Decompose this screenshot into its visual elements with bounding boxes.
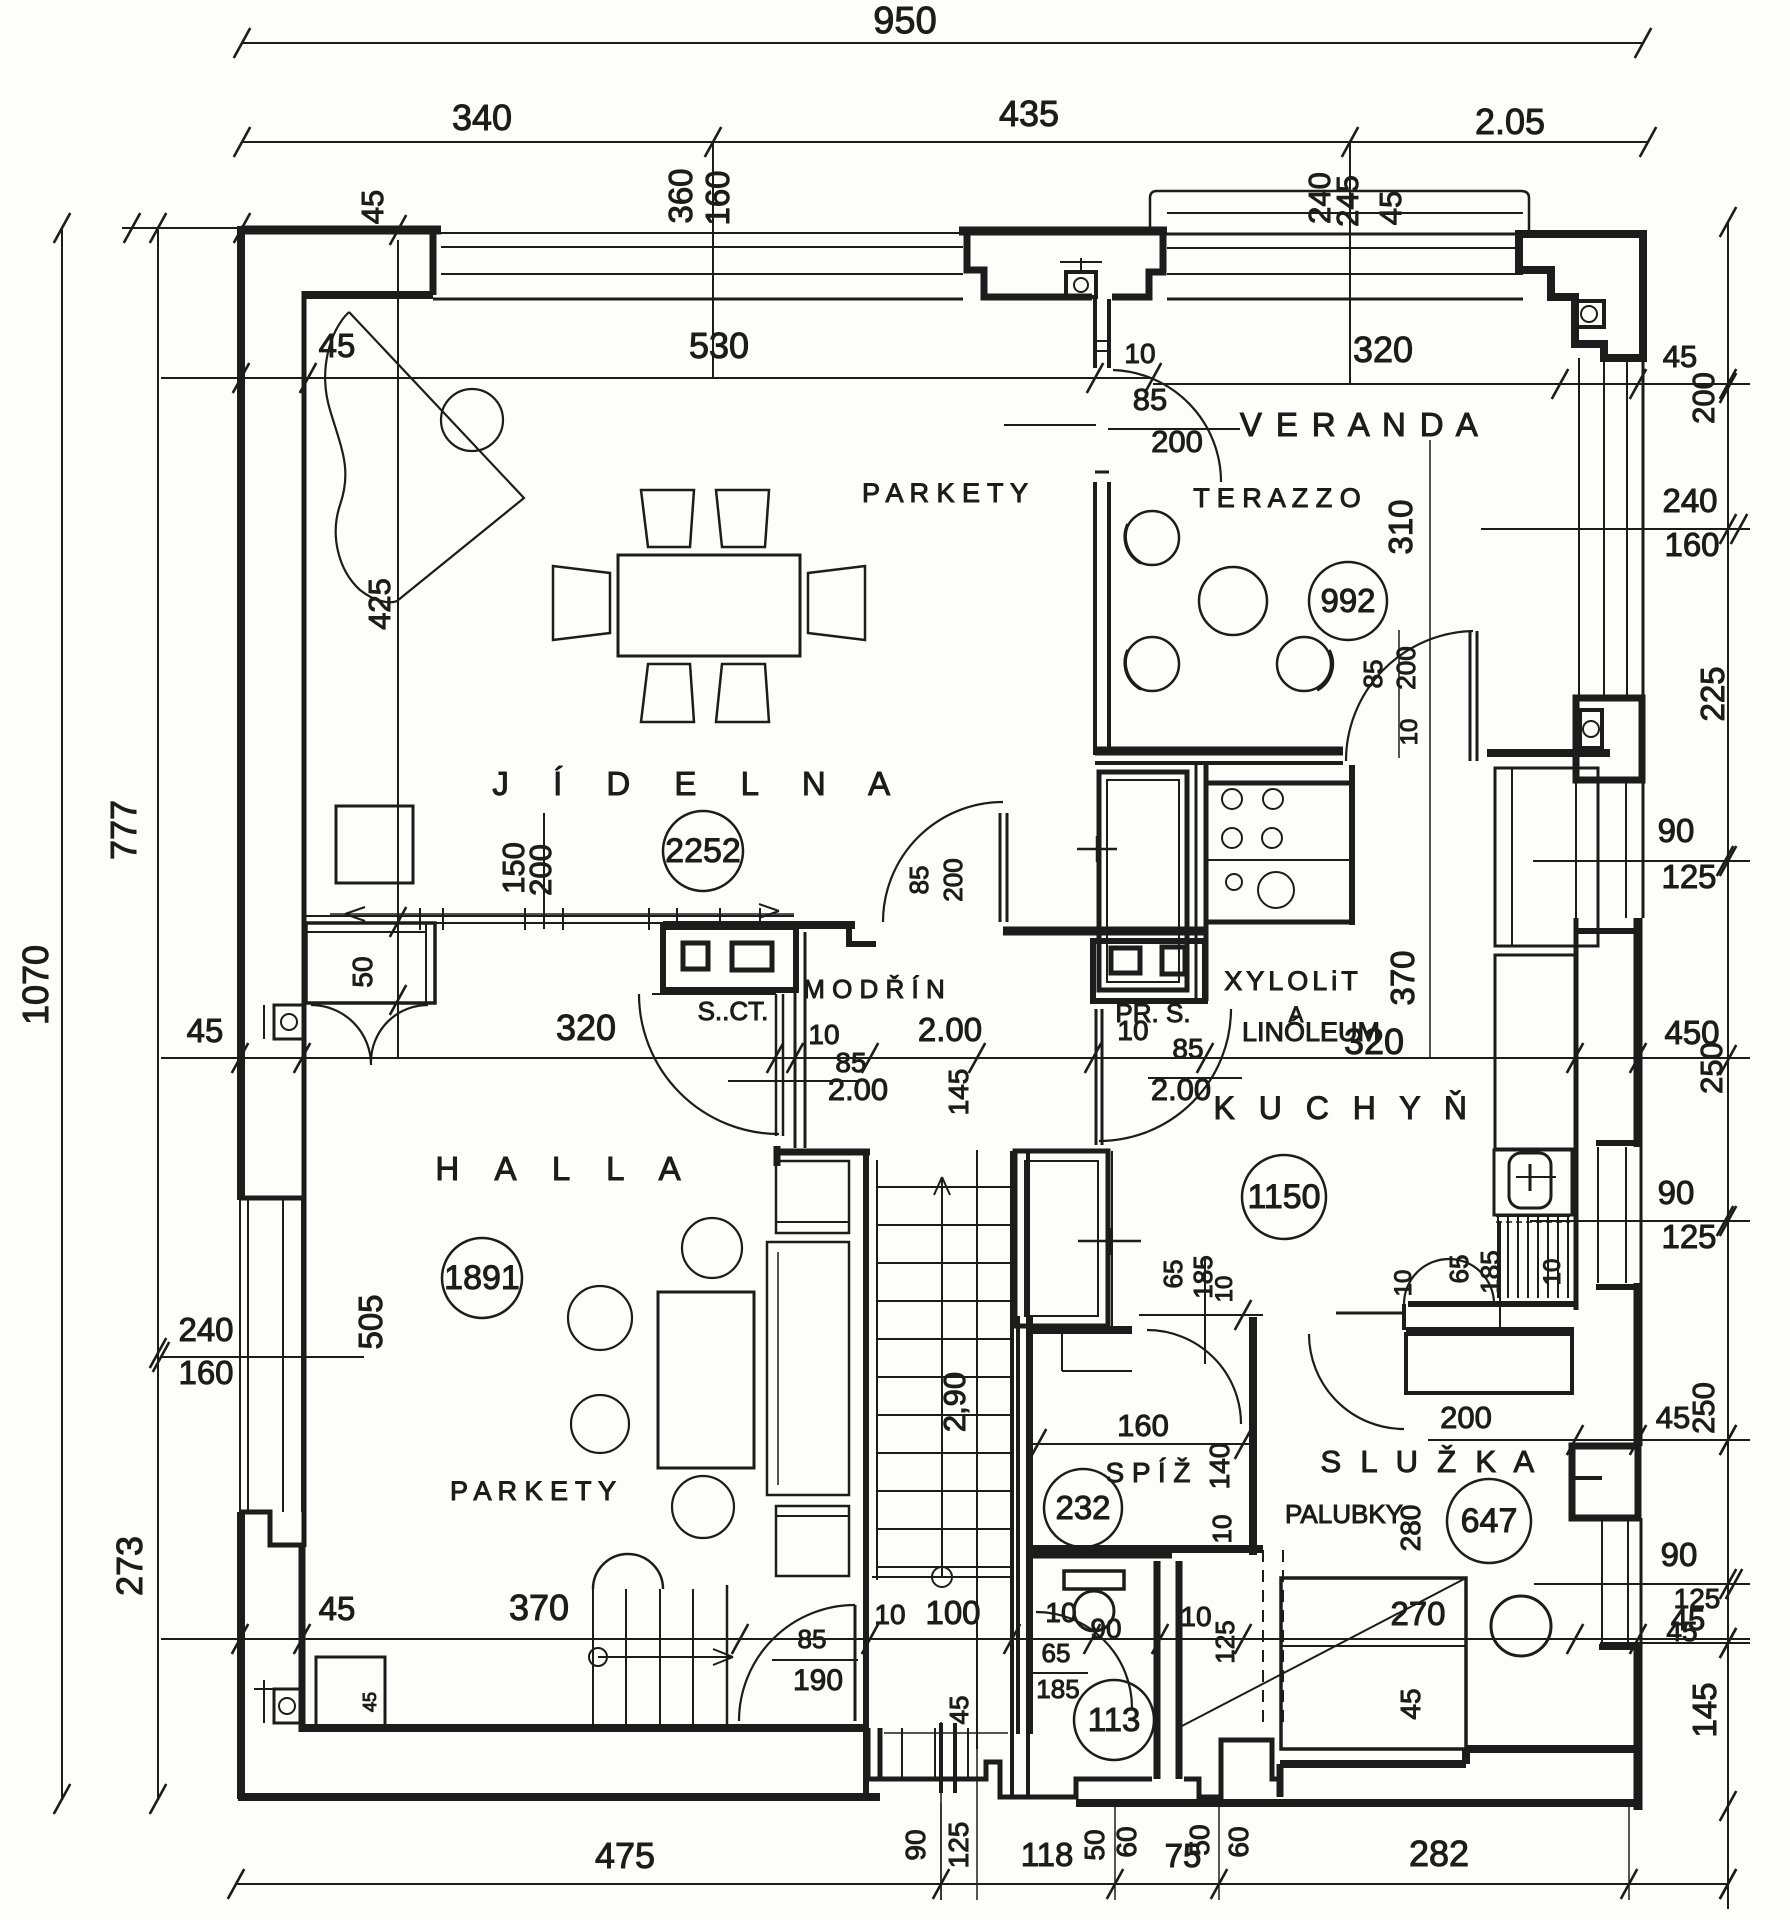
svg-text:2.05: 2.05 (1475, 101, 1545, 142)
dim line 340/435/205 (242, 141, 1648, 143)
svg-text:160: 160 (1117, 1408, 1169, 1443)
chain 65 185 10 left (1139, 1314, 1263, 1316)
svg-text:45: 45 (1395, 1688, 1426, 1719)
svg-text:370: 370 (509, 1587, 569, 1628)
svg-text:10: 10 (808, 1019, 839, 1050)
dim line 240/160 left window (161, 1356, 364, 1358)
svg-text:P A R K E T Y: P A R K E T Y (450, 1476, 616, 1506)
svg-text:10: 10 (1539, 1259, 1566, 1286)
svg-text:45: 45 (1373, 191, 1408, 225)
svg-text:992: 992 (1320, 582, 1375, 619)
kitchen counter e (1495, 955, 1575, 1149)
svg-text:145: 145 (1686, 1682, 1723, 1737)
door stairhall-kitchen arc (1099, 1009, 1231, 1141)
halla chair circle 2 (568, 1286, 632, 1350)
wc north wall (1031, 1552, 1172, 1559)
wall stairhall north (1003, 927, 1205, 936)
svg-text:370: 370 (1384, 950, 1421, 1005)
spiz shelf (1061, 1324, 1063, 1371)
veranda south wall (1095, 747, 1343, 756)
svg-text:10: 10 (1124, 338, 1155, 369)
window band right sluzka (1601, 1518, 1603, 1643)
dim line 90/125 kitchen window (1533, 860, 1750, 862)
dim line 45 bottom right (1600, 1642, 1750, 1644)
svg-text:200: 200 (1686, 372, 1721, 424)
svg-text:P A R K E T Y: P A R K E T Y (862, 478, 1028, 508)
svg-text:160: 160 (178, 1354, 233, 1391)
svg-text:240: 240 (1662, 482, 1717, 519)
svg-text:45: 45 (319, 1590, 356, 1627)
porch middle wall pair (939, 1723, 943, 1793)
svg-text:10: 10 (1211, 1276, 1238, 1303)
svg-text:530: 530 (689, 325, 749, 366)
window band right kitchen (1575, 780, 1577, 918)
door jidelna-stairhall arc (883, 802, 1003, 922)
lower stair treads (592, 1589, 594, 1728)
svg-text:45: 45 (1663, 339, 1697, 374)
bottom chain y1639 (161, 1638, 1750, 1640)
dim line 240/160 right (1481, 528, 1750, 530)
stair treads (877, 1186, 1012, 1188)
svg-text:200: 200 (523, 844, 558, 896)
kitchen stove block (1206, 783, 1352, 922)
veranda chair 3 (1277, 637, 1331, 691)
corner seat triangle (349, 312, 524, 601)
stair left wall cap (777, 1149, 870, 1156)
veranda canopy outline (1150, 191, 1529, 234)
area circle 1150 (1242, 1155, 1326, 1239)
svg-text:K U C H Y Ň: K U C H Y Ň (1214, 1090, 1475, 1126)
svg-text:10: 10 (1180, 1601, 1211, 1632)
svg-text:250: 250 (1686, 1382, 1721, 1434)
stove burners (1222, 789, 1242, 809)
svg-text:320: 320 (556, 1007, 616, 1048)
svg-text:200: 200 (1440, 1400, 1492, 1435)
veranda chair 2 (1125, 637, 1179, 691)
svg-text:475: 475 (595, 1835, 655, 1876)
svg-text:1891: 1891 (444, 1259, 520, 1297)
svg-text:85: 85 (1133, 382, 1167, 417)
modrin east wall (794, 932, 797, 1148)
wc door arc (1036, 1612, 1132, 1708)
area circle 113 (1074, 1680, 1154, 1760)
spiz door arc (1147, 1330, 1241, 1424)
door jidelna-stairhall leaf (999, 813, 1002, 922)
svg-text:125: 125 (1661, 1218, 1716, 1255)
dining chair bottom2 (716, 664, 769, 722)
svg-text:435: 435 (999, 93, 1059, 134)
svg-text:125: 125 (943, 1822, 974, 1869)
stair right rail (1010, 1151, 1014, 1795)
spiz east wall (1249, 1317, 1257, 1555)
sideboard halla (306, 923, 435, 1003)
svg-text:45: 45 (1671, 1602, 1705, 1637)
svg-text:125: 125 (1661, 858, 1716, 895)
dim line 950 top (242, 42, 1643, 44)
svg-text:273: 273 (109, 1536, 150, 1596)
kitchen south wall (1336, 1312, 1404, 1315)
svg-text:425: 425 (362, 578, 397, 630)
kitchen draining hatch (1497, 1216, 1499, 1298)
porch steps (868, 1728, 1152, 1797)
left wall lower (237, 1512, 245, 1799)
dining chair top1 (641, 490, 694, 547)
right chimney pier (1572, 1446, 1638, 1518)
spiz west wall (1016, 1316, 1020, 1734)
halla armchair lower (776, 1506, 849, 1576)
sliding partition track (306, 915, 794, 917)
svg-text:45: 45 (355, 190, 390, 224)
radiator square left (274, 1005, 304, 1039)
svg-text:60: 60 (1223, 1826, 1254, 1857)
svg-text:232: 232 (1055, 1489, 1110, 1526)
svg-text:V E R A N D A: V E R A N D A (1240, 406, 1480, 443)
svg-text:113: 113 (1088, 1701, 1141, 1738)
dim line right edge vertical (1727, 222, 1729, 1909)
dining chair left (553, 566, 610, 640)
stair center line (941, 1177, 943, 1577)
bottom inner wall halla (302, 1724, 868, 1732)
wc east wall (1154, 1561, 1161, 1779)
fireplace square jidelna (336, 806, 413, 883)
dim line 320 veranda top (1153, 383, 1750, 385)
svg-text:50: 50 (1079, 1829, 1110, 1860)
svg-text:2252: 2252 (665, 832, 741, 870)
svg-text:1150: 1150 (1247, 1178, 1320, 1216)
svg-text:10: 10 (1396, 719, 1423, 746)
dim line 90/125 sluzka window (1534, 1583, 1750, 1585)
right wall jog (1596, 1284, 1641, 1290)
svg-text:65: 65 (1158, 1260, 1188, 1289)
area circle 2252 (663, 811, 743, 891)
veranda garden door arc (1346, 631, 1473, 761)
svg-text:320: 320 (1353, 329, 1413, 370)
svg-text:950: 950 (873, 0, 936, 42)
area circle 232 (1044, 1469, 1122, 1547)
veranda door labels (1004, 424, 1096, 426)
kitchen counter ne (1495, 768, 1598, 946)
kitchen crosshair (1078, 1240, 1141, 1243)
svg-text:LINÓLEUM: LINÓLEUM (1242, 1016, 1380, 1047)
kitchen sink (1494, 1150, 1572, 1215)
svg-text:200: 200 (938, 858, 968, 901)
stair landing line (872, 1576, 1012, 1578)
dim 160 spiz (1028, 1443, 1253, 1445)
area circle 647 (1447, 1479, 1531, 1563)
svg-text:45: 45 (187, 1012, 224, 1049)
closet right understair (1015, 1151, 1108, 1326)
door stairhall-halla arc (639, 994, 779, 1134)
veranda chair 1 (1125, 511, 1179, 565)
cabinet PR.S box (1093, 941, 1205, 1001)
door stairhall-kitchen leaf (1095, 1009, 1098, 1145)
svg-text:118: 118 (1021, 1836, 1074, 1873)
svg-text:65: 65 (1444, 1255, 1474, 1284)
radiator square bottom left (274, 1689, 301, 1723)
svg-text:360: 360 (662, 168, 699, 223)
window band right kitchen low (1597, 1147, 1599, 1283)
svg-text:125: 125 (1210, 1620, 1240, 1663)
sluzka dashed lines (1262, 1550, 1264, 1724)
left wall window jogs (240, 1196, 304, 1201)
svg-text:10: 10 (1390, 1270, 1417, 1297)
svg-text:245: 245 (1330, 175, 1365, 227)
dining chair right (808, 566, 865, 640)
svg-text:200: 200 (1391, 646, 1421, 689)
spiz south wall (1031, 1545, 1263, 1553)
svg-text:10: 10 (874, 1599, 905, 1630)
svg-text:185: 185 (1036, 1674, 1079, 1704)
lower stair arrow (598, 1656, 733, 1658)
halla chair circle 1 (682, 1218, 742, 1278)
svg-text:140: 140 (1204, 1443, 1235, 1490)
svg-text:282: 282 (1409, 1833, 1469, 1874)
fireplace square halla (316, 1657, 385, 1728)
svg-text:50: 50 (347, 956, 378, 987)
left window band (239, 1200, 241, 1512)
bottom inner wall sluzka (1466, 1745, 1638, 1753)
closet S.CT box (663, 927, 796, 990)
svg-text:PALUBKY: PALUBKY (1285, 1499, 1403, 1529)
dim line 777/273 left (157, 228, 159, 1799)
sluzka bed (1281, 1578, 1466, 1749)
window band top jidelna (441, 232, 963, 234)
svg-text:2.00: 2.00 (918, 1011, 982, 1048)
svg-text:T E R A Z Z O: T E R A Z Z O (1193, 483, 1361, 513)
svg-text:50: 50 (1184, 1824, 1215, 1855)
veranda table (1199, 567, 1267, 635)
main chain dim line y1058 (161, 1057, 1750, 1059)
svg-text:45: 45 (319, 327, 356, 364)
svg-text:2.00: 2.00 (1151, 1072, 1211, 1107)
outer wall top-left (241, 226, 441, 235)
right wall bottom (1634, 1643, 1643, 1810)
svg-text:85: 85 (904, 866, 934, 895)
svg-text:200: 200 (1151, 424, 1203, 459)
dim line 200/45 sluzka (1428, 1439, 1750, 1441)
svg-text:PŘ. S.: PŘ. S. (1115, 998, 1190, 1028)
dim ext verticals bottom (940, 1803, 942, 1900)
dim ext line top-left corner (122, 227, 242, 229)
dining table (618, 555, 800, 656)
svg-text:J Í D E L N A: J Í D E L N A (492, 765, 907, 802)
svg-text:90: 90 (1658, 812, 1695, 849)
svg-text:M O D Ř Í N: M O D Ř Í N (803, 974, 945, 1004)
outer wall top-right corner block (1519, 234, 1643, 358)
kitchen north wall (1349, 765, 1355, 925)
svg-text:85: 85 (1172, 1033, 1203, 1064)
spiz north wall (1031, 1326, 1132, 1334)
veranda door arc (1113, 370, 1221, 482)
wall closet sct (663, 921, 855, 929)
svg-text:160: 160 (1664, 526, 1719, 563)
porch drain square (1066, 272, 1096, 297)
svg-text:310: 310 (1382, 499, 1419, 554)
svg-text:1070: 1070 (15, 945, 56, 1025)
corner drain square (1575, 301, 1604, 327)
halla couch (767, 1242, 849, 1495)
halla coffee table (658, 1292, 754, 1468)
right wall kitchen section (1634, 918, 1643, 1147)
porch step lines (901, 1728, 903, 1779)
double door arcs halla (311, 1005, 371, 1065)
kitchen tall cupboard (1099, 772, 1187, 990)
svg-text:777: 777 (103, 800, 144, 860)
svg-text:S L U Ž K A: S L U Ž K A (1320, 1444, 1539, 1479)
halla chair circle 3 (571, 1395, 629, 1453)
area circle 992 (1309, 562, 1387, 640)
halla entrance door (854, 1605, 857, 1721)
area circle 1891 (442, 1238, 522, 1318)
svg-text:85: 85 (798, 1624, 827, 1654)
svg-text:2.00: 2.00 (828, 1072, 888, 1107)
svg-text:90: 90 (900, 1829, 931, 1860)
dim line 90/125 pantry window (1530, 1220, 1750, 1222)
corner seat circle (441, 389, 503, 451)
wall step right of closet (849, 929, 876, 944)
svg-text:190: 190 (793, 1664, 843, 1697)
svg-text:100: 100 (925, 1594, 980, 1631)
stair left wall (863, 1149, 869, 1795)
svg-text:160: 160 (699, 170, 736, 225)
svg-text:340: 340 (452, 97, 512, 138)
inner wall top-left (304, 291, 433, 299)
svg-text:S..CT.: S..CT. (698, 996, 769, 1026)
svg-text:65: 65 (1042, 1638, 1071, 1668)
svg-text:S P Í Ž: S P Í Ž (1105, 1457, 1190, 1488)
svg-text:280: 280 (1395, 1505, 1426, 1552)
right wall pier with pipe (1576, 698, 1642, 780)
svg-text:XYLOLiT: XYLOLiT (1224, 966, 1362, 996)
svg-text:647: 647 (1461, 1502, 1518, 1540)
svg-text:10: 10 (1207, 1515, 1237, 1544)
svg-text:90: 90 (1661, 1536, 1698, 1573)
bottom dim line 475 118 75 282 (236, 1883, 1728, 1885)
wall jidelna-veranda (1093, 299, 1097, 368)
svg-text:85: 85 (1358, 660, 1388, 689)
dining chair bottom1 (641, 664, 694, 722)
porch threshold (884, 1732, 1008, 1734)
svg-text:225: 225 (1694, 666, 1731, 721)
dining chair top2 (716, 490, 769, 547)
halla armchair upper (776, 1161, 849, 1233)
halla chair circle 4 (672, 1476, 734, 1538)
porch block top (959, 227, 1167, 236)
corner seat blob (325, 312, 397, 602)
svg-text:505: 505 (352, 1294, 389, 1349)
svg-text:H A L L A: H A L L A (435, 1150, 694, 1187)
dim line 530 with 45 (161, 377, 1153, 379)
svg-text:45: 45 (944, 1696, 974, 1725)
svg-text:240: 240 (178, 1311, 233, 1348)
window band veranda top (1167, 233, 1523, 236)
svg-text:2,90: 2,90 (937, 1372, 972, 1432)
dim line 1070 left (61, 228, 63, 1799)
porch dim ext lines (940, 1722, 942, 1900)
svg-text:145: 145 (943, 1069, 974, 1116)
svg-text:250: 250 (1694, 1042, 1729, 1094)
kitchen-sluzka door arcs (1404, 1259, 1494, 1304)
partition tick marks (390, 907, 407, 937)
lower stair newel arc (593, 1554, 663, 1589)
sluzka wardrobe (1406, 1334, 1572, 1393)
svg-text:90: 90 (1658, 1174, 1695, 1211)
wc toilet (1064, 1571, 1124, 1589)
svg-text:45: 45 (360, 1692, 380, 1712)
bottom outer wall (238, 1793, 880, 1801)
sluzka washbasin (1491, 1596, 1551, 1656)
wall kitchen west upper (1195, 765, 1198, 1001)
window band right veranda (1578, 358, 1580, 698)
